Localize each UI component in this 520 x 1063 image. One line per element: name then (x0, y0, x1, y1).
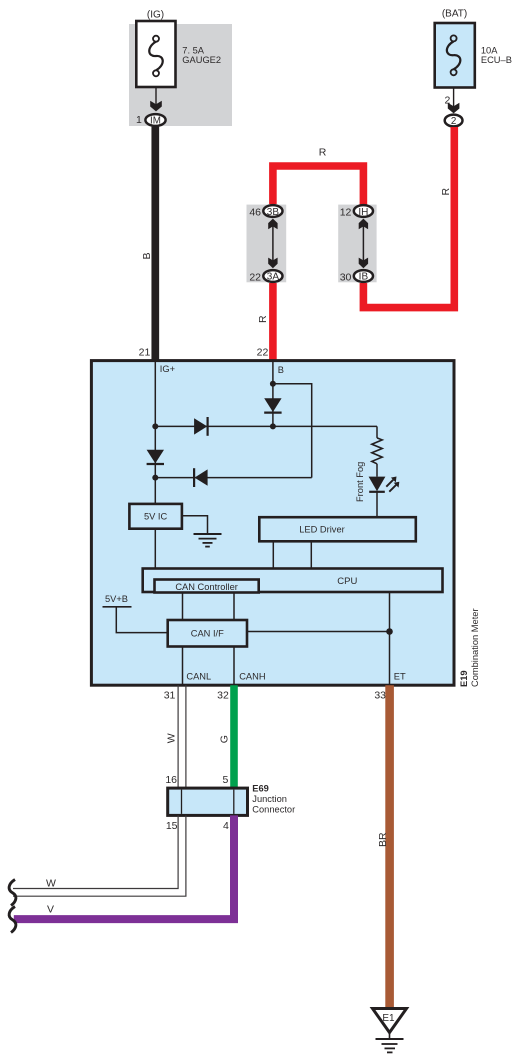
svg-text:IM: IM (150, 116, 161, 127)
wire R: IH up, left, down to 3B (273, 166, 364, 205)
svg-text:CAN I/F: CAN I/F (191, 628, 224, 638)
node IG+/horizontal2 (152, 475, 158, 481)
connector IM (145, 114, 165, 126)
break symbol (W) (9, 880, 16, 906)
node on ET line (386, 628, 393, 635)
wire fuse to connector IM (155, 87, 157, 106)
svg-text:ECU–B: ECU–B (481, 55, 512, 65)
svg-text:3A: 3A (267, 272, 280, 283)
arrow into IM (150, 101, 162, 112)
svg-text:CAN Controller: CAN Controller (175, 582, 238, 592)
svg-text:10A: 10A (481, 45, 498, 55)
resistor (front fog) (372, 438, 382, 464)
connector block 3B/3A background (247, 205, 287, 283)
wire CAN I/F to ET line (247, 631, 390, 633)
break symbol (V) (9, 907, 16, 933)
svg-text:GAUGE2: GAUGE2 (182, 55, 221, 65)
svg-text:31: 31 (164, 689, 176, 701)
svg-text:G: G (218, 735, 230, 743)
wire ET vertical (389, 592, 391, 685)
wire W below junction (outline) (13, 815, 178, 888)
CAN I/F box (168, 620, 247, 647)
connector 3A (263, 270, 282, 283)
svg-text:CPU: CPU (337, 576, 357, 587)
svg-text:CANH: CANH (239, 672, 265, 682)
svg-text:16: 16 (165, 774, 177, 786)
svg-text:5V IC: 5V IC (144, 512, 168, 522)
svg-text:12: 12 (340, 206, 352, 218)
svg-text:IH: IH (358, 207, 368, 218)
LED Driver box (259, 517, 416, 541)
svg-text:46: 46 (249, 206, 261, 218)
diode D2 (right) (194, 418, 207, 434)
double arrow 3B-3A (268, 219, 277, 269)
junction connector E69 (168, 788, 248, 815)
wire branch B right (273, 384, 312, 478)
node on B line (270, 381, 276, 387)
node B/horizontal1 (270, 423, 276, 429)
svg-text:Junction: Junction (252, 794, 287, 804)
diode D1 on B line (down) (264, 398, 281, 412)
svg-text:IG+: IG+ (160, 364, 175, 374)
svg-text:2: 2 (451, 116, 456, 127)
svg-text:R: R (319, 146, 327, 158)
fuse block background (IG) (129, 24, 232, 126)
svg-text:33: 33 (374, 689, 386, 701)
svg-text:1: 1 (136, 114, 142, 126)
wire BR (brown) (385, 685, 394, 1009)
wire W (CANL, white outline) (177, 685, 179, 788)
wires LED driver to CPU (272, 541, 274, 568)
svg-text:B: B (278, 365, 284, 375)
diode D4 (left) (195, 469, 208, 485)
svg-text:22: 22 (257, 347, 269, 359)
wire to resistor (376, 426, 378, 438)
wire B (black) IM to combination meter pin 21 (151, 127, 159, 361)
svg-text:W: W (165, 733, 177, 743)
svg-text:15: 15 (166, 820, 178, 832)
wires CAN I/F down (182, 647, 184, 686)
svg-text:32: 32 (217, 689, 229, 701)
connector block IH/IB background (338, 205, 376, 283)
svg-text:Front Fog: Front Fog (355, 462, 365, 502)
svg-text:B: B (141, 252, 153, 259)
ground point E1 (373, 1009, 407, 1053)
CAN Controller box (155, 580, 259, 593)
connector 2 (445, 115, 463, 127)
fuse 7.5A GAUGE2 (136, 21, 175, 87)
svg-text:R: R (257, 315, 269, 323)
combination meter box E19 (91, 361, 454, 686)
svg-text:22: 22 (249, 271, 261, 283)
svg-text:IB: IB (359, 272, 369, 283)
wires CAN controller to CAN I/F (182, 593, 184, 621)
CPU box (143, 569, 443, 593)
wire R: connector 2 down, left, up to IB (363, 127, 454, 308)
svg-text:W: W (46, 877, 56, 889)
diode D3 on IG+ line (down) (147, 450, 164, 464)
wire fuse to connector 2 (453, 88, 455, 108)
svg-text:5V+B: 5V+B (105, 594, 128, 604)
svg-text:3B: 3B (267, 207, 280, 218)
svg-text:E69: E69 (252, 783, 269, 793)
arrow into connector 2 (448, 103, 460, 114)
wire LED to LED driver (376, 492, 378, 517)
5V IC box (129, 504, 182, 529)
wire 5V IC to ground (182, 516, 208, 534)
wire B vertical (272, 361, 274, 427)
svg-text:E19: E19 (459, 670, 469, 687)
svg-text:7. 5A: 7. 5A (182, 45, 205, 55)
5V+B supply (103, 594, 168, 633)
svg-text:E1: E1 (382, 1013, 395, 1024)
fuse 10A ECU-B (435, 23, 475, 88)
wire IG+ vertical (154, 361, 156, 504)
svg-text:ET: ET (394, 672, 406, 682)
wire resistor to LED (376, 464, 378, 477)
svg-text:30: 30 (340, 271, 352, 283)
svg-text:5: 5 (223, 774, 229, 786)
svg-text:21: 21 (139, 347, 151, 359)
double arrow IH-IB (359, 219, 368, 269)
connector IH (354, 205, 373, 218)
wire R: 3A down to pin 22 (269, 283, 277, 361)
wire horizontal 2 (155, 477, 311, 479)
svg-text:(BAT): (BAT) (442, 8, 467, 19)
svg-text:Combination Meter: Combination Meter (470, 608, 480, 687)
node IG+/horizontal1 (152, 423, 158, 429)
svg-text:BR: BR (377, 832, 389, 847)
svg-text:V: V (47, 903, 54, 915)
svg-text:4: 4 (223, 820, 229, 832)
wire G (CANH, green) (230, 685, 238, 788)
svg-text:(IG): (IG) (147, 10, 164, 21)
ground (5V IC) (194, 534, 222, 547)
connector IB (354, 270, 373, 283)
connector 3B (263, 205, 282, 218)
svg-text:Connector: Connector (252, 804, 295, 814)
LED front fog (369, 477, 400, 492)
svg-text:LED Driver: LED Driver (299, 525, 344, 535)
svg-text:CANL: CANL (186, 672, 211, 682)
wire horizontal 1 (155, 425, 377, 427)
svg-text:R: R (440, 188, 452, 196)
wire V (purple) (14, 815, 234, 919)
